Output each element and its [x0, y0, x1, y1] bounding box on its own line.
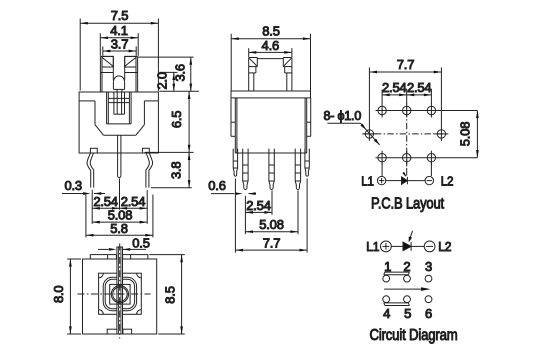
front view plunger stem — [114, 92, 125, 114]
dimension 2.54 2.54 (front view pin pitch) — [92, 179, 147, 224]
PCB row3 hole line — [376, 157, 478, 159]
circuit L1 terminal (+) — [366, 239, 391, 254]
svg-text:8.5: 8.5 — [162, 286, 177, 303]
dimension 5.08 (side view) — [245, 191, 298, 235]
front view pin roots — [90, 148, 149, 153]
front view cap hatched blocks — [100, 56, 137, 72]
svg-text:5.08: 5.08 — [457, 122, 472, 147]
dimension 0.3 (pin thickness) — [62, 178, 105, 195]
PCB label 8-dia1.0 with leader — [324, 109, 380, 145]
svg-text:2.0: 2.0 — [155, 72, 170, 89]
side view cap left block — [249, 58, 258, 92]
side view cap top bar — [257, 58, 283, 60]
dimension 5.8 (front view) — [86, 195, 153, 238]
svg-text:3.8: 3.8 — [169, 162, 184, 179]
svg-text:7.7: 7.7 — [397, 57, 414, 72]
svg-text:6: 6 — [425, 306, 432, 321]
front view LED dome — [113, 76, 124, 92]
circuit contact 6 — [425, 296, 432, 303]
bottom view bottom inner blocks — [107, 329, 131, 334]
dimension 8.5 (side view width) — [231, 24, 310, 91]
svg-text:7.7: 7.7 — [263, 235, 280, 250]
circuit bridge contacts 4-5 — [384, 303, 410, 306]
svg-text:5: 5 — [404, 306, 411, 321]
svg-text:P.C.B Layout: P.C.B Layout — [371, 196, 445, 213]
side view right tab — [307, 98, 311, 136]
svg-text:2.54: 2.54 — [382, 80, 407, 95]
PCB dimension 2.54 2.54 — [382, 80, 431, 104]
dimension 0.5 (bottom view stem width) — [98, 236, 150, 251]
bottom view center lines (dash-dot) — [78, 244, 151, 339]
bottom view center circle — [111, 286, 128, 303]
PCB center horizontal line (dash-dot) — [363, 133, 449, 135]
PCB row1 hole line — [376, 110, 478, 112]
dimension 4.6 — [249, 38, 292, 57]
svg-text:3: 3 — [425, 259, 432, 274]
dimension 2.0 (right of cap) — [155, 72, 178, 91]
PCB hole-to-symbol links — [382, 162, 431, 176]
PCB holes 8x diameter 1.0 — [362, 104, 448, 165]
svg-text:2.54: 2.54 — [246, 198, 271, 213]
dimension 8.5 (bottom view overall height) — [149, 255, 184, 334]
front view plunger walls — [113, 56, 124, 79]
dimension 2.54 (side view) — [245, 191, 272, 235]
PCB dimension 7.7 — [369, 57, 441, 127]
dimension 3.6 — [138, 57, 199, 91]
side view pin 3 — [295, 149, 300, 190]
front view cap outer walls — [100, 56, 137, 92]
bottom view rounded square seat — [103, 277, 136, 310]
svg-text:0.6: 0.6 — [208, 178, 225, 193]
front view right bent pin — [146, 153, 153, 188]
svg-text:3.6: 3.6 — [172, 64, 187, 81]
circuit contact 1 — [383, 275, 390, 282]
bottom view body outline — [83, 259, 157, 334]
bottom view central square frame — [99, 273, 142, 314]
svg-text:5.08: 5.08 — [259, 217, 284, 232]
circuit bridge contacts 1-2 — [384, 272, 410, 275]
side view flange — [231, 91, 311, 98]
side view right edge pin — [305, 149, 309, 177]
dimension 3.8 (front view pin length) — [151, 152, 192, 187]
side view cap right block — [283, 58, 292, 92]
svg-text:L1: L1 — [361, 173, 374, 188]
dimension 3.7 — [103, 37, 136, 56]
front view plunger guide box — [107, 92, 132, 124]
svg-text:3.7: 3.7 — [111, 37, 128, 52]
svg-text:L1: L1 — [366, 239, 379, 254]
svg-text:2.54: 2.54 — [407, 80, 432, 95]
dimension 6.5 (front view body height) — [145, 91, 194, 152]
svg-text:L2: L2 — [441, 173, 454, 188]
circuit L2 terminal (-) — [424, 239, 451, 254]
circuit LED symbol — [391, 231, 424, 251]
svg-text:6.5: 6.5 — [169, 111, 184, 128]
dimension 0.6 (side view pin thickness) — [208, 178, 256, 195]
PCB LED symbol — [386, 172, 425, 184]
dimension 7.7 (side view) — [235, 179, 307, 253]
front view body inner steps — [79, 101, 158, 135]
PCB L1 terminal (+) — [361, 173, 386, 188]
PCB L2 terminal (-) — [425, 173, 453, 188]
circuit contact 2 — [404, 275, 411, 282]
svg-text:8- ϕ1.0: 8- ϕ1.0 — [324, 109, 362, 123]
dimension 7.5 (front view cap-to-cap width) — [80, 8, 158, 91]
circuit contact 4 — [383, 296, 390, 303]
side view pin 1 — [243, 149, 248, 190]
side view pin 2 (center) — [269, 149, 274, 190]
side view left tab — [231, 98, 235, 136]
svg-text:5.8: 5.8 — [110, 221, 127, 236]
PCB center vertical line (dash-dot) — [406, 98, 408, 168]
bottom view inner square — [110, 284, 130, 304]
dimension 5.08 (front view) — [92, 207, 147, 223]
svg-text:4: 4 — [383, 306, 390, 321]
svg-text:4.6: 4.6 — [262, 38, 279, 53]
circuit pin numbers 1 2 3 — [384, 259, 432, 274]
svg-text:0.5: 0.5 — [132, 236, 149, 251]
front view left bent pin — [87, 153, 94, 188]
PCB dimension 5.08 — [457, 111, 478, 158]
svg-text:7.5: 7.5 — [111, 8, 128, 23]
svg-text:Circuit Diagram: Circuit Diagram — [370, 327, 458, 344]
bottom view top edge bumps — [90, 255, 148, 259]
circuit contact 5 — [404, 296, 411, 303]
side view body — [235, 98, 306, 153]
side view left edge pin — [233, 149, 237, 177]
front view LED lead (center pin) — [118, 135, 121, 177]
circuit contact 3 — [425, 275, 432, 282]
circuit actuation arrow — [384, 287, 431, 291]
svg-text:8.0: 8.0 — [51, 286, 66, 303]
circuit pin numbers 4 5 6 — [383, 306, 432, 321]
bottom view frame corner arcs — [99, 273, 142, 314]
svg-text:L2: L2 — [438, 239, 451, 254]
svg-text:8.5: 8.5 — [262, 24, 279, 39]
bottom view center stem — [117, 247, 123, 334]
svg-text:0.3: 0.3 — [64, 178, 81, 193]
dimension 4.1 — [100, 23, 138, 56]
dimension 8.0 (bottom view height) — [51, 259, 81, 334]
front view body outline — [79, 92, 158, 153]
